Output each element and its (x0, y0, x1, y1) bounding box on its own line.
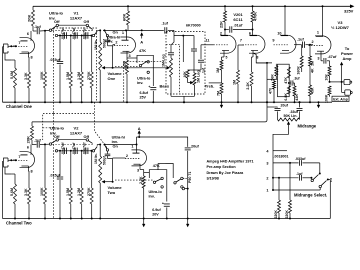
svg-text:100K: 100K (324, 94, 328, 103)
pin 5 V201a (226, 56, 259, 60)
resistor 56K (275, 64, 278, 80)
svg-text:.0067uf: .0067uf (83, 27, 87, 40)
svg-text:Midrange Select.: Midrange Select. (294, 193, 327, 198)
wire to power amp (340, 63, 343, 82)
label Midrange Select (294, 193, 327, 198)
wire box top ch2 (158, 164, 166, 170)
label 10K (183, 71, 187, 78)
resistor 470K (251, 6, 254, 35)
resistor 6.8K (287, 82, 290, 94)
resistor 10K out (328, 61, 331, 83)
wire dashed to On (52, 144, 93, 146)
label .01uf (234, 24, 244, 28)
label .1uf (297, 38, 304, 42)
capacitor .015uf (50, 36, 64, 103)
label 1.5M (66, 72, 70, 80)
potentiometer Volume One 1M lin (99, 29, 102, 102)
svg-text:12AX7: 12AX7 (70, 16, 83, 21)
box ultra-lo switch ch2 (149, 170, 167, 202)
label 5.6M ch2 (10, 188, 14, 196)
label 50K Lin. (284, 114, 298, 118)
svg-text:.015uf: .015uf (50, 174, 61, 178)
svg-text:2: 2 (115, 41, 117, 45)
svg-text:8: 8 (257, 56, 259, 60)
box mid network (278, 64, 290, 97)
svg-text:1.5M: 1.5M (66, 72, 70, 80)
svg-text:500pf: 500pf (102, 38, 106, 48)
svg-text:.0047uf: .0047uf (72, 142, 76, 155)
row 1 (266, 189, 320, 193)
svg-text:7: 7 (18, 41, 20, 45)
capacitor .47uf (321, 51, 330, 63)
svg-text:3: 3 (137, 169, 139, 173)
ground arrow mid (317, 101, 320, 107)
resistor 47K mid (287, 67, 290, 78)
label 43K2 (311, 87, 315, 94)
pin 2 V2b (113, 154, 128, 158)
wire A to cap ch2 (137, 136, 188, 147)
svg-text:10: 10 (277, 32, 281, 36)
svg-text:1: 1 (266, 189, 268, 193)
resistor 10K mid (186, 70, 194, 78)
label Volume One (108, 71, 123, 81)
label 5.6M (10, 71, 14, 79)
svg-text:2: 2 (220, 32, 222, 36)
svg-text:Off: Off (54, 135, 60, 139)
capacitor 6.8uf ch2 (162, 201, 170, 218)
svg-text:1-3: 1-3 (329, 178, 333, 182)
svg-text:470K: 470K (254, 12, 258, 21)
label Off (54, 20, 90, 24)
net A marker ch2 (138, 126, 141, 137)
svg-text:A: A (138, 126, 141, 131)
wire midrange feed (267, 79, 277, 107)
label To Power Amp (341, 46, 353, 61)
capacitor .0047uf b (75, 32, 77, 38)
svg-text:470: 470 (269, 88, 273, 94)
svg-text:.1uf: .1uf (34, 25, 41, 29)
capacitor .1uf coupling (294, 42, 313, 48)
svg-text:325V: 325V (344, 9, 354, 14)
label 3.3K ch2 (24, 188, 28, 196)
svg-text:.1uf: .1uf (162, 22, 169, 26)
label 3.3K (24, 72, 28, 80)
label 1M lin. ch2 (94, 153, 98, 164)
tube V3a (274, 35, 297, 53)
svg-text:1.2M: 1.2M (77, 188, 81, 196)
jack ext amp 1 (344, 80, 352, 85)
ground arrow ch2b (186, 219, 189, 227)
svg-text:inv.: inv. (149, 195, 155, 199)
wire jack to grid (8, 45, 17, 47)
resistor 2.2K cathode ch2 (140, 170, 149, 219)
label 20uf a (281, 104, 289, 108)
svg-text:220K: 220K (274, 210, 278, 219)
svg-text:47K: 47K (153, 164, 160, 168)
pin 1 V2b (131, 145, 136, 151)
svg-text:Off: Off (84, 135, 90, 139)
label .1uf row2 (296, 172, 303, 176)
resistor 1M cath a (220, 51, 224, 83)
switch midrange b (319, 178, 333, 188)
wiper treble (188, 78, 193, 84)
row 2 (266, 175, 311, 181)
svg-text:inv.: inv. (112, 140, 118, 144)
capacitor .0047uf d (65, 148, 67, 154)
svg-text:.1uf: .1uf (202, 67, 206, 74)
pin 1 V1b (122, 30, 127, 40)
label .0047uf e (72, 142, 76, 155)
svg-text:.0047uf: .0047uf (72, 27, 76, 40)
capacitor .015uf ch2 (50, 151, 64, 219)
resistor 22K (224, 6, 227, 35)
svg-text:Ext. Amp: Ext. Amp (333, 97, 348, 101)
svg-text:Drawn By Joe Piazza: Drawn By Joe Piazza (207, 171, 245, 175)
label V3 12DW7 (331, 20, 350, 30)
potentiometer Treble 1M Log (193, 70, 196, 96)
label Ultra-hi inv. (107, 36, 120, 44)
label .0018uf (274, 154, 289, 158)
wire to pot (100, 29, 102, 31)
wire plate V2a (30, 145, 32, 155)
svg-text:On: On (113, 145, 119, 149)
svg-text:1M lin.: 1M lin. (94, 153, 98, 164)
jack ext amp 2 (341, 81, 353, 95)
label On (113, 31, 119, 35)
svg-text:43K: 43K (295, 94, 299, 101)
svg-text:10K: 10K (183, 71, 187, 78)
svg-text:22K: 22K (220, 21, 224, 28)
svg-text:.0047uf: .0047uf (61, 27, 65, 40)
label Ultra-lo inv. 2 (137, 77, 151, 86)
label 33uf b (290, 110, 299, 114)
svg-text:Pre-amp Section: Pre-amp Section (207, 165, 237, 169)
svg-text:Two: Two (108, 190, 116, 195)
svg-text:43K: 43K (311, 87, 315, 94)
label 1M lin. (94, 39, 98, 50)
capacitor .1uf ch2 (32, 139, 41, 148)
pin 2 V1b (113, 41, 118, 45)
wire plate V3b (322, 6, 324, 36)
svg-text:7: 7 (240, 39, 242, 43)
svg-text:20K: 20K (27, 15, 32, 22)
label Volume Two (108, 185, 123, 195)
wire filter row (55, 34, 94, 36)
svg-text:5.6M: 5.6M (10, 71, 14, 79)
svg-text:6C11: 6C11 (233, 17, 243, 22)
label 1M Log bass (162, 54, 166, 67)
wire jack (330, 81, 345, 83)
resistor 20K (32, 6, 35, 31)
pin 10 V3a (277, 32, 281, 36)
label 6.9uf 20V (152, 208, 161, 217)
capacitor 500pf (105, 37, 114, 46)
label Ultra-lo inv. ch2b (149, 190, 163, 199)
label .033uf (295, 157, 306, 161)
label P50 71 (188, 172, 192, 183)
label 56K (271, 74, 275, 81)
label 270K ch2 (87, 187, 91, 196)
resistor 470 (273, 79, 276, 102)
tube V1b 12AX7 (114, 37, 136, 53)
svg-text:.3uf: .3uf (294, 77, 301, 81)
capacitor 20uf mid a (274, 107, 280, 120)
label Channel One (6, 104, 32, 109)
svg-text:1M: 1M (216, 68, 220, 73)
svg-text:1.2M: 1.2M (77, 72, 81, 80)
svg-text:6.8K: 6.8K (284, 93, 288, 101)
dotted box ultra-lo ch2 (43, 102, 108, 218)
svg-text:6.9uf: 6.9uf (152, 208, 161, 212)
svg-text:6: 6 (27, 146, 29, 150)
resistor 220K a (278, 177, 281, 219)
label Treb. (205, 83, 215, 88)
svg-text:Off: Off (54, 20, 60, 24)
svg-text:10K: 10K (324, 74, 328, 81)
svg-text:270K: 270K (87, 187, 91, 196)
svg-text:One: One (108, 76, 117, 81)
resistor 160K (300, 45, 303, 72)
svg-text:Midrange: Midrange (298, 124, 317, 129)
resistor 5.6M ch2 (12, 174, 17, 219)
pin 8 V1a (29, 52, 33, 60)
pin 11 V201a (205, 39, 209, 43)
svg-text:.0018001: .0018001 (274, 154, 289, 158)
tube V201b (243, 35, 266, 53)
svg-text:inv.: inv. (49, 16, 56, 21)
row 3 (266, 160, 319, 166)
wire jack sleeve ch2 (3, 161, 12, 219)
tube V3b (309, 36, 332, 54)
resistor 1.5M (69, 36, 72, 103)
dotted box tone stack (124, 32, 205, 103)
svg-text:Ultra-hi: Ultra-hi (112, 135, 125, 139)
label 100K (40, 71, 44, 80)
label 2.2K b (246, 82, 250, 90)
svg-text:On: On (113, 31, 119, 35)
svg-text:2: 2 (312, 40, 314, 44)
capacitor 20uf (185, 148, 191, 219)
svg-text:2: 2 (266, 176, 268, 180)
label Bass (160, 83, 170, 88)
wire cathode to box (127, 57, 137, 59)
capacitor in dotted box (191, 36, 197, 70)
resistor 3.3K (28, 57, 31, 102)
capacitor treble (194, 45, 206, 74)
svg-text:1: 1 (317, 31, 319, 35)
svg-text:6: 6 (249, 32, 251, 36)
svg-text:.1uf: .1uf (297, 38, 304, 42)
wire ground bus ch2 (3, 218, 331, 220)
label 1M Log treble (197, 70, 201, 83)
pin 8 V2a (29, 166, 33, 174)
wiper Volume One (102, 45, 113, 69)
wiper midrange (273, 122, 290, 149)
label 325V (344, 9, 354, 14)
svg-text:1M Log: 1M Log (162, 54, 166, 67)
box Ext Amp (332, 96, 349, 101)
label 500pf ch2 (102, 155, 106, 165)
switch ultra-hi ch1 (104, 29, 109, 37)
switch in box ch2 (115, 177, 163, 188)
label 500pf (102, 38, 106, 48)
potentiometer Midrange 50K Lin (278, 118, 300, 121)
svg-text:.47uf: .47uf (328, 55, 338, 59)
label V1 12AX7 (70, 11, 83, 21)
switch ultra-lo ch1 (49, 24, 93, 31)
svg-text:A: A (140, 40, 143, 45)
label 20K ch2 (26, 136, 31, 143)
pin 6 V2a (27, 145, 31, 151)
label 22K (220, 21, 224, 28)
resistor 2.2K cath b (250, 51, 253, 103)
label 47K (139, 49, 146, 53)
svg-text:.01uf: .01uf (234, 24, 244, 28)
label 2.2K ch2 (139, 176, 143, 184)
svg-text:Channel One: Channel One (6, 104, 32, 109)
svg-text:inv.: inv. (137, 81, 143, 85)
label 750 (216, 91, 220, 96)
label 220K b (285, 210, 289, 219)
resistor 100K (44, 31, 47, 102)
label 1.2M ch2 (77, 188, 81, 196)
svg-text:8: 8 (31, 170, 33, 174)
label V201 6C11 (233, 12, 243, 22)
pin 3 V3b (317, 57, 319, 61)
box ultra-lo switch ch1 (137, 55, 153, 86)
label 1M b (233, 80, 237, 85)
wire B+ rail 325V (33, 5, 354, 8)
net A marker (140, 33, 143, 45)
tube V2a 12AX7 (13, 152, 35, 168)
label 160K (297, 66, 301, 75)
label 1.2M (77, 72, 81, 80)
label 6.8uf 25V (140, 91, 149, 100)
label 60K (122, 14, 127, 21)
label V2 12AX7 (70, 126, 83, 136)
pin 2 V3b (312, 40, 314, 44)
capacitor .0047uf e (75, 148, 77, 154)
wire cap to switch ch2 (40, 143, 49, 145)
capacitor 500pf ch2 (105, 151, 113, 158)
resistor 100K out (328, 86, 331, 97)
title text (207, 160, 254, 181)
svg-text:2: 2 (126, 154, 128, 158)
svg-text:1: 1 (122, 31, 124, 35)
label 6K70000 (162, 22, 201, 28)
pin 2 V201a (220, 32, 222, 36)
switch ultra-lo ch2 (49, 139, 92, 146)
svg-text:500pf: 500pf (102, 155, 106, 165)
svg-text:47K: 47K (139, 49, 146, 53)
resistor 43K2 (309, 68, 312, 102)
svg-text:3: 3 (266, 162, 268, 166)
wire select feed (272, 149, 274, 190)
wire node A run (126, 29, 164, 31)
label 470 (269, 88, 273, 94)
switch ultra-hi ch2 (104, 144, 109, 152)
resistor 100K ch2 (44, 144, 47, 218)
resistor 3.3K ch2 (28, 171, 31, 219)
resistor 1M g (309, 45, 312, 68)
capacitor .01uf (225, 26, 254, 32)
pin 3 V2b (137, 164, 140, 172)
svg-text:Ampeg H4D Amplifier 1971: Ampeg H4D Amplifier 1971 (207, 160, 254, 164)
label 47K ch2 (153, 164, 160, 168)
tube V1a 12AX7 (13, 38, 35, 54)
svg-text:20K: 20K (26, 136, 31, 143)
svg-text:.1uf: .1uf (34, 139, 41, 143)
label 1uf mid (294, 77, 301, 81)
pin 1 V3b (317, 31, 319, 35)
svg-text:11: 11 (205, 39, 209, 43)
svg-text:6: 6 (27, 32, 29, 36)
label Midrange (298, 124, 317, 129)
label .0067uf c (83, 27, 87, 40)
svg-text:1M: 1M (233, 80, 237, 85)
capacitor .0067uf c (86, 32, 88, 38)
svg-text:100K: 100K (40, 71, 44, 80)
svg-text:9: 9 (272, 39, 274, 43)
svg-text:1M lin.: 1M lin. (94, 39, 98, 50)
svg-text:3.3K: 3.3K (24, 188, 28, 196)
pin 7 V201b (240, 39, 242, 43)
label Ultra-lo inv. (49, 11, 64, 21)
svg-text:.015uf: .015uf (50, 58, 61, 62)
ground arrow ch2a (142, 219, 145, 227)
wire row risers ch2 (94, 145, 100, 151)
label .0067uf f (83, 142, 87, 155)
svg-text:P50 71: P50 71 (188, 172, 192, 183)
wiper Volume Two (102, 159, 113, 184)
svg-text:3: 3 (317, 57, 319, 61)
svg-text:4: 4 (266, 149, 269, 153)
svg-text:20uf: 20uf (281, 104, 289, 108)
wire cap to switch (40, 30, 49, 32)
capacitor .1uf (34, 25, 41, 34)
wire cath b tap (253, 53, 272, 63)
svg-text:.1uf: .1uf (296, 172, 303, 176)
svg-text:½ 12DW7: ½ 12DW7 (331, 25, 350, 30)
svg-text:Channel Two: Channel Two (6, 220, 32, 225)
pin 7 V1a (13, 41, 21, 46)
svg-text:220K: 220K (285, 210, 289, 219)
svg-text:Treb.: Treb. (205, 83, 215, 88)
capacitor .0047uf a (65, 32, 67, 38)
wire row risers (94, 30, 100, 35)
label Ultra-hi inv. ch2 (112, 135, 125, 144)
node rail junctions (127, 5, 324, 7)
capacitor .0067uf f (86, 148, 88, 154)
jack input ch1 (4, 44, 9, 53)
svg-text:1M Log: 1M Log (197, 70, 201, 83)
node bus dots ch2 (14, 218, 291, 220)
capacitor 6.8uf 25V (148, 85, 156, 102)
label 2.2K (122, 61, 126, 69)
wire mid tap row (256, 62, 268, 64)
capacitor 33uf mid b (297, 101, 303, 119)
wire select out (320, 180, 330, 219)
label .0047uf b (72, 27, 76, 40)
svg-text:.0047uf: .0047uf (61, 142, 65, 155)
potentiometer Volume Two 1M lin (99, 144, 102, 219)
contact on line ch2 (181, 186, 189, 190)
resistor 60K (125, 6, 130, 31)
wire ground bus ch1 (3, 101, 333, 103)
svg-text:25V: 25V (140, 96, 147, 100)
wire tone stack to bus (171, 96, 195, 103)
svg-text:270K: 270K (87, 71, 91, 80)
